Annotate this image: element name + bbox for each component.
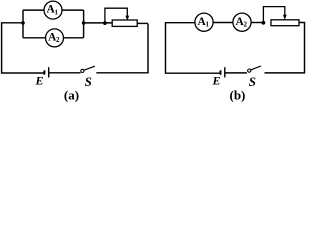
svg-text:E: E <box>212 73 221 87</box>
svg-text:(b): (b) <box>230 88 246 102</box>
svg-text:2: 2 <box>244 20 248 28</box>
svg-text:1: 1 <box>55 8 59 16</box>
svg-text:S: S <box>249 74 256 89</box>
svg-text:E: E <box>35 73 44 87</box>
svg-text:(a): (a) <box>64 88 79 102</box>
svg-text:S: S <box>85 74 92 89</box>
svg-text:2: 2 <box>56 36 60 44</box>
svg-text:1: 1 <box>206 20 210 28</box>
